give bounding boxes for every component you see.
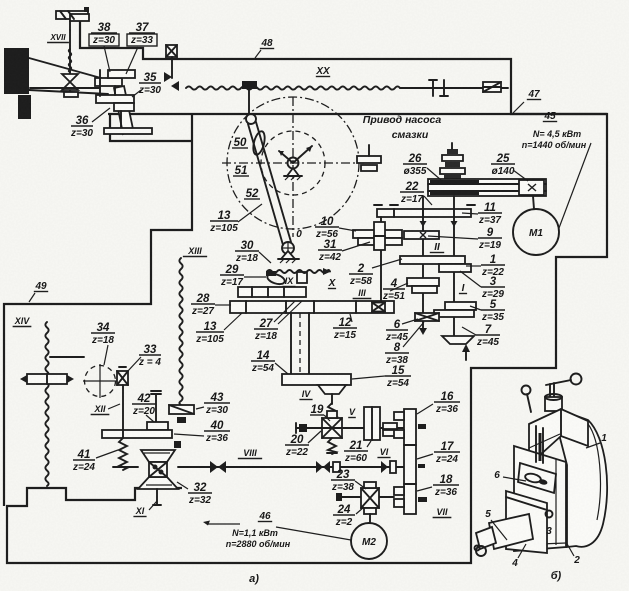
label 14 z=54 xyxy=(251,350,275,374)
screw end symbol xyxy=(483,82,501,92)
gear 1 z=22 bar xyxy=(439,264,471,272)
leader 36 xyxy=(92,108,110,122)
gear 21 z=60 xyxy=(364,407,397,440)
label 36 z=30 xyxy=(70,115,93,139)
label 45 xyxy=(543,111,557,122)
motor M1 shaft xyxy=(533,196,534,209)
leader m6 xyxy=(503,477,526,481)
screw bracket support xyxy=(429,80,448,96)
ratchet lever parts xyxy=(266,271,307,286)
label 16 z=36 xyxy=(434,391,460,415)
label 23 z=38 xyxy=(331,469,355,493)
shaft V left bearing xyxy=(296,423,307,433)
machine panel 6 xyxy=(518,463,556,493)
tall gear column 16-17-18 xyxy=(404,409,416,514)
label 19 xyxy=(310,404,324,416)
leader 16 xyxy=(417,404,433,414)
leader 19 xyxy=(324,415,330,421)
leader 17 xyxy=(417,454,433,459)
shaft III vertical xyxy=(380,217,382,302)
leader 3 xyxy=(460,271,481,287)
rocker pivot circle 0 xyxy=(278,242,299,263)
leader 23 xyxy=(355,481,366,489)
shaft V horizontal xyxy=(296,427,404,429)
label 27 z=18 xyxy=(254,318,278,342)
label 30 z=18 xyxy=(235,240,259,264)
label III xyxy=(353,288,372,299)
long gear bar row xyxy=(230,301,394,313)
label 11 z=37 xyxy=(478,202,502,226)
leader 22 xyxy=(424,196,432,205)
bevel gear pair on XVII xyxy=(62,74,78,97)
arrow 46 xyxy=(203,521,210,526)
leader 27a xyxy=(274,301,295,322)
screw XIV wavy xyxy=(45,322,48,486)
gear 35 z=30 bar xyxy=(96,95,134,103)
wall edge line lower xyxy=(29,90,108,94)
gear III column xyxy=(374,222,385,250)
leader XII xyxy=(108,404,120,409)
border line top-left long xyxy=(108,113,607,115)
leader 26 xyxy=(427,168,441,180)
screw nut at rod xyxy=(242,81,257,114)
plate bracket parallelogram xyxy=(114,86,133,134)
worm 33 box xyxy=(117,367,128,385)
bevel on shaft I xyxy=(442,336,474,360)
gear block IX xyxy=(238,287,306,297)
label II xyxy=(430,242,444,253)
gear 4 step bar xyxy=(412,286,437,293)
gear 36 z=30 bar xyxy=(114,103,134,111)
leader 25 xyxy=(513,170,528,181)
label 37 z=33 xyxy=(129,22,155,46)
clutch on VIII xyxy=(210,461,226,473)
label 4 z=51 xyxy=(382,278,405,302)
shaft VII xyxy=(336,493,394,501)
label 13 z=105 (lower) xyxy=(195,321,224,345)
bevel gear cross 32 z=32 xyxy=(138,450,178,489)
leader 6 xyxy=(402,319,418,324)
gear 4 z=51 bar xyxy=(407,278,439,286)
label 8 z=38 xyxy=(385,342,409,366)
label 5 z=35 xyxy=(481,299,505,323)
bearings left of column xyxy=(394,412,404,507)
leader 27b xyxy=(278,301,302,324)
label 2 z=58 xyxy=(349,263,373,287)
label I xyxy=(459,283,467,294)
box around z=33 xyxy=(127,34,157,46)
label 17 z=24 xyxy=(434,441,460,465)
machine cap cylinder xyxy=(545,394,562,411)
wall edge line upper xyxy=(29,58,108,80)
crank centerline horizontal xyxy=(222,162,364,164)
label X xyxy=(328,278,337,289)
label VI xyxy=(377,447,390,458)
tick 47 xyxy=(513,102,524,113)
leader XI xyxy=(149,501,157,510)
machine spindle xyxy=(475,514,534,556)
leader 9 xyxy=(428,236,478,239)
leader 4 xyxy=(390,283,408,291)
vertical shaft to lower gears xyxy=(114,86,116,95)
leader 41 xyxy=(96,450,118,458)
belt drive bar xyxy=(428,179,546,196)
shaft into bevel from left xyxy=(113,466,138,468)
leader 8 xyxy=(403,322,424,347)
shaft IV spring upper xyxy=(328,403,336,419)
leader 32 xyxy=(177,482,188,489)
nut 43 on XIII xyxy=(169,405,194,423)
motor M1 circle xyxy=(513,209,559,255)
shaft VIII-VI horizontal xyxy=(178,466,404,468)
label 20 z=22 xyxy=(285,434,309,458)
shaft XI stub xyxy=(153,489,161,505)
gearbox 23-24 xyxy=(361,482,379,514)
gear 42 z=20 bar xyxy=(147,422,168,430)
leader 43 xyxy=(196,407,204,409)
label V xyxy=(348,407,356,418)
gear bar B on shaft II xyxy=(404,231,439,239)
leader 29 xyxy=(244,276,266,278)
bevel pair under 14 xyxy=(318,385,346,404)
label 18 z=36 xyxy=(433,474,459,498)
tick 48 xyxy=(255,50,261,58)
crank centerline vertical xyxy=(292,97,294,237)
screw XIII wavy xyxy=(179,258,182,405)
gear 6 z=45 xyxy=(415,313,439,321)
label 13 z=105 (wheel) xyxy=(209,210,238,234)
border notch box top-left xyxy=(4,114,192,506)
label XIV xyxy=(13,316,32,327)
vertical shaft XVII xyxy=(69,30,71,95)
leader 10 xyxy=(339,228,356,231)
gear 13 z=105 pitch circle (dash-dot) xyxy=(227,97,359,229)
leader 5 xyxy=(470,306,481,310)
gear 5 lower bar xyxy=(434,310,474,317)
label 46 xyxy=(258,511,272,522)
tick 49 xyxy=(29,293,35,302)
shaft IV spring lower xyxy=(328,438,336,454)
leader 1 xyxy=(466,265,481,267)
screw XX straight part xyxy=(400,87,508,89)
leader m5 xyxy=(491,520,507,540)
gear 5 z=35 bar xyxy=(445,302,476,310)
clutch right VI xyxy=(381,461,396,473)
coupling on shaft III lower xyxy=(372,303,385,312)
label 50 xyxy=(232,137,248,149)
label 21 z=60 xyxy=(344,440,368,464)
label 42 z=20 xyxy=(132,393,156,417)
leader 45 to M1 xyxy=(559,143,591,228)
leader 13 lower xyxy=(224,313,242,330)
gear 14 z=54 bar xyxy=(282,374,351,385)
gear bars C twin xyxy=(353,230,402,245)
label VIII xyxy=(238,448,262,459)
gear bar D on II xyxy=(400,256,465,264)
nut on XIV with arrows xyxy=(20,374,74,384)
crank hub xyxy=(279,146,312,180)
label 26 ø355 xyxy=(403,153,427,177)
leader 28 xyxy=(215,304,231,306)
vertical shaft at x=100 xyxy=(99,70,101,96)
label 3 z=29 xyxy=(481,276,505,300)
leader 24 xyxy=(356,507,364,514)
spindle column verticals xyxy=(291,313,309,374)
label 51 xyxy=(233,165,249,177)
leader m1 xyxy=(586,443,600,448)
label 47 xyxy=(527,89,541,100)
leader 20 xyxy=(308,431,321,443)
gear 40 z=36 bar xyxy=(102,430,172,438)
label 34 z=18 xyxy=(91,322,115,346)
arrow on X screw xyxy=(323,268,331,275)
label 15 z=54 xyxy=(385,365,411,389)
leader m4 xyxy=(518,544,526,558)
label XIII xyxy=(183,246,207,257)
gear 44 bottom bar xyxy=(104,128,152,134)
label 33 z=4 xyxy=(138,344,161,368)
label 22 z=17 xyxy=(400,181,424,205)
horizontal shaft from wall xyxy=(30,87,100,89)
label 52 xyxy=(244,188,260,200)
leader 33 xyxy=(127,357,141,372)
label IV xyxy=(299,389,312,400)
label XX xyxy=(315,66,331,77)
label IX xyxy=(282,276,295,287)
wall bracket lower block xyxy=(18,95,31,119)
lead screw XX wavy xyxy=(186,86,400,89)
pump gear bits xyxy=(357,145,381,171)
leader m2 xyxy=(566,542,574,556)
shaft label XVII xyxy=(47,33,69,43)
leader 14 xyxy=(275,363,288,374)
label 41 z=24 xyxy=(72,449,95,473)
leader 40 xyxy=(174,434,204,436)
gear 37 z=33 xyxy=(108,70,135,78)
arrow on shaft I xyxy=(451,221,458,227)
feed screw X wavy xyxy=(267,270,330,273)
label 29 z=17 xyxy=(220,264,244,288)
label 43 z=30 xyxy=(204,392,230,416)
box around z=30 xyxy=(89,34,119,46)
leader 37 xyxy=(126,47,138,74)
inner dashed circle xyxy=(261,131,325,195)
label 38 z=30 xyxy=(91,22,117,46)
leader 30 xyxy=(259,252,271,263)
gear 34 z=18 circle xyxy=(83,364,117,398)
label 1 z=22 xyxy=(481,254,505,278)
variator cone stack xyxy=(440,143,465,179)
machine lever xyxy=(522,386,532,413)
label 35 z=30 xyxy=(138,72,161,96)
label 24 z=2 xyxy=(333,504,355,528)
machine lower box xyxy=(506,491,547,553)
shaft XII vertical xyxy=(122,385,124,430)
label 10 z=56 xyxy=(315,216,339,240)
arrow on shaft II xyxy=(420,221,427,227)
machine post xyxy=(550,383,554,397)
leader 21 xyxy=(367,441,371,447)
vertical shaft x156 xyxy=(151,391,161,422)
motor M2 shaft xyxy=(369,514,371,523)
gear 38 z=30 xyxy=(95,78,122,86)
motor M2 circle xyxy=(351,523,387,559)
label 48 top xyxy=(260,38,274,49)
label 49 left xyxy=(34,281,48,292)
label 12 z=15 xyxy=(333,317,357,341)
clutch mid VI xyxy=(316,461,340,473)
label 40 z=36 xyxy=(204,420,230,444)
machine dial 3 xyxy=(546,511,553,518)
label 9 z=19 xyxy=(478,227,502,251)
leader 34 xyxy=(104,345,108,365)
leader 31 xyxy=(342,242,370,251)
leader 7 xyxy=(462,327,476,335)
gear bar A wide xyxy=(374,205,475,217)
machine top box xyxy=(529,409,588,465)
label 6 z=45 xyxy=(385,319,408,343)
label XI xyxy=(133,506,146,517)
connecting rod 52 xyxy=(248,122,291,245)
spring on shaft XVII xyxy=(69,49,72,72)
label 25 ø140 xyxy=(491,153,515,177)
leader 12 xyxy=(350,314,352,322)
label VII xyxy=(433,507,452,518)
leader 38 xyxy=(104,46,110,72)
machine knee curve xyxy=(560,410,607,547)
wall mount block (hatched) xyxy=(4,48,29,94)
leader 42 xyxy=(146,415,154,422)
leader 11 xyxy=(462,213,478,214)
hanging bearing with coupling xyxy=(164,45,179,91)
bearing ticks right of column xyxy=(418,424,427,502)
drive line to gear 34 xyxy=(50,356,84,358)
label 31 z=42 xyxy=(318,239,342,263)
leader 46 left xyxy=(207,523,240,525)
shaft II vertical xyxy=(419,196,427,335)
handle bar XVII top xyxy=(56,7,89,30)
rod top pin circle 50 xyxy=(246,114,256,124)
label 32 z=32 xyxy=(188,482,212,506)
leader 18 xyxy=(417,487,432,491)
label 28 z=27 xyxy=(191,293,215,317)
leader 15 xyxy=(352,376,385,379)
leader 35 xyxy=(132,90,141,97)
label XII xyxy=(91,404,110,415)
leader 2 xyxy=(372,259,402,268)
machine crossbar xyxy=(546,380,571,385)
machine column front xyxy=(514,446,566,551)
worm box 20 z=22 xyxy=(322,411,342,438)
machine handwheel knob xyxy=(571,374,582,385)
shaft from pulley 26 down xyxy=(453,196,455,336)
machine slot xyxy=(536,426,543,463)
leader 46 to M2 xyxy=(276,527,351,540)
spring end tick xyxy=(327,452,337,454)
leader 13 xyxy=(238,204,262,222)
spring on XII xyxy=(119,438,127,470)
label 7 z=45 xyxy=(476,324,500,348)
